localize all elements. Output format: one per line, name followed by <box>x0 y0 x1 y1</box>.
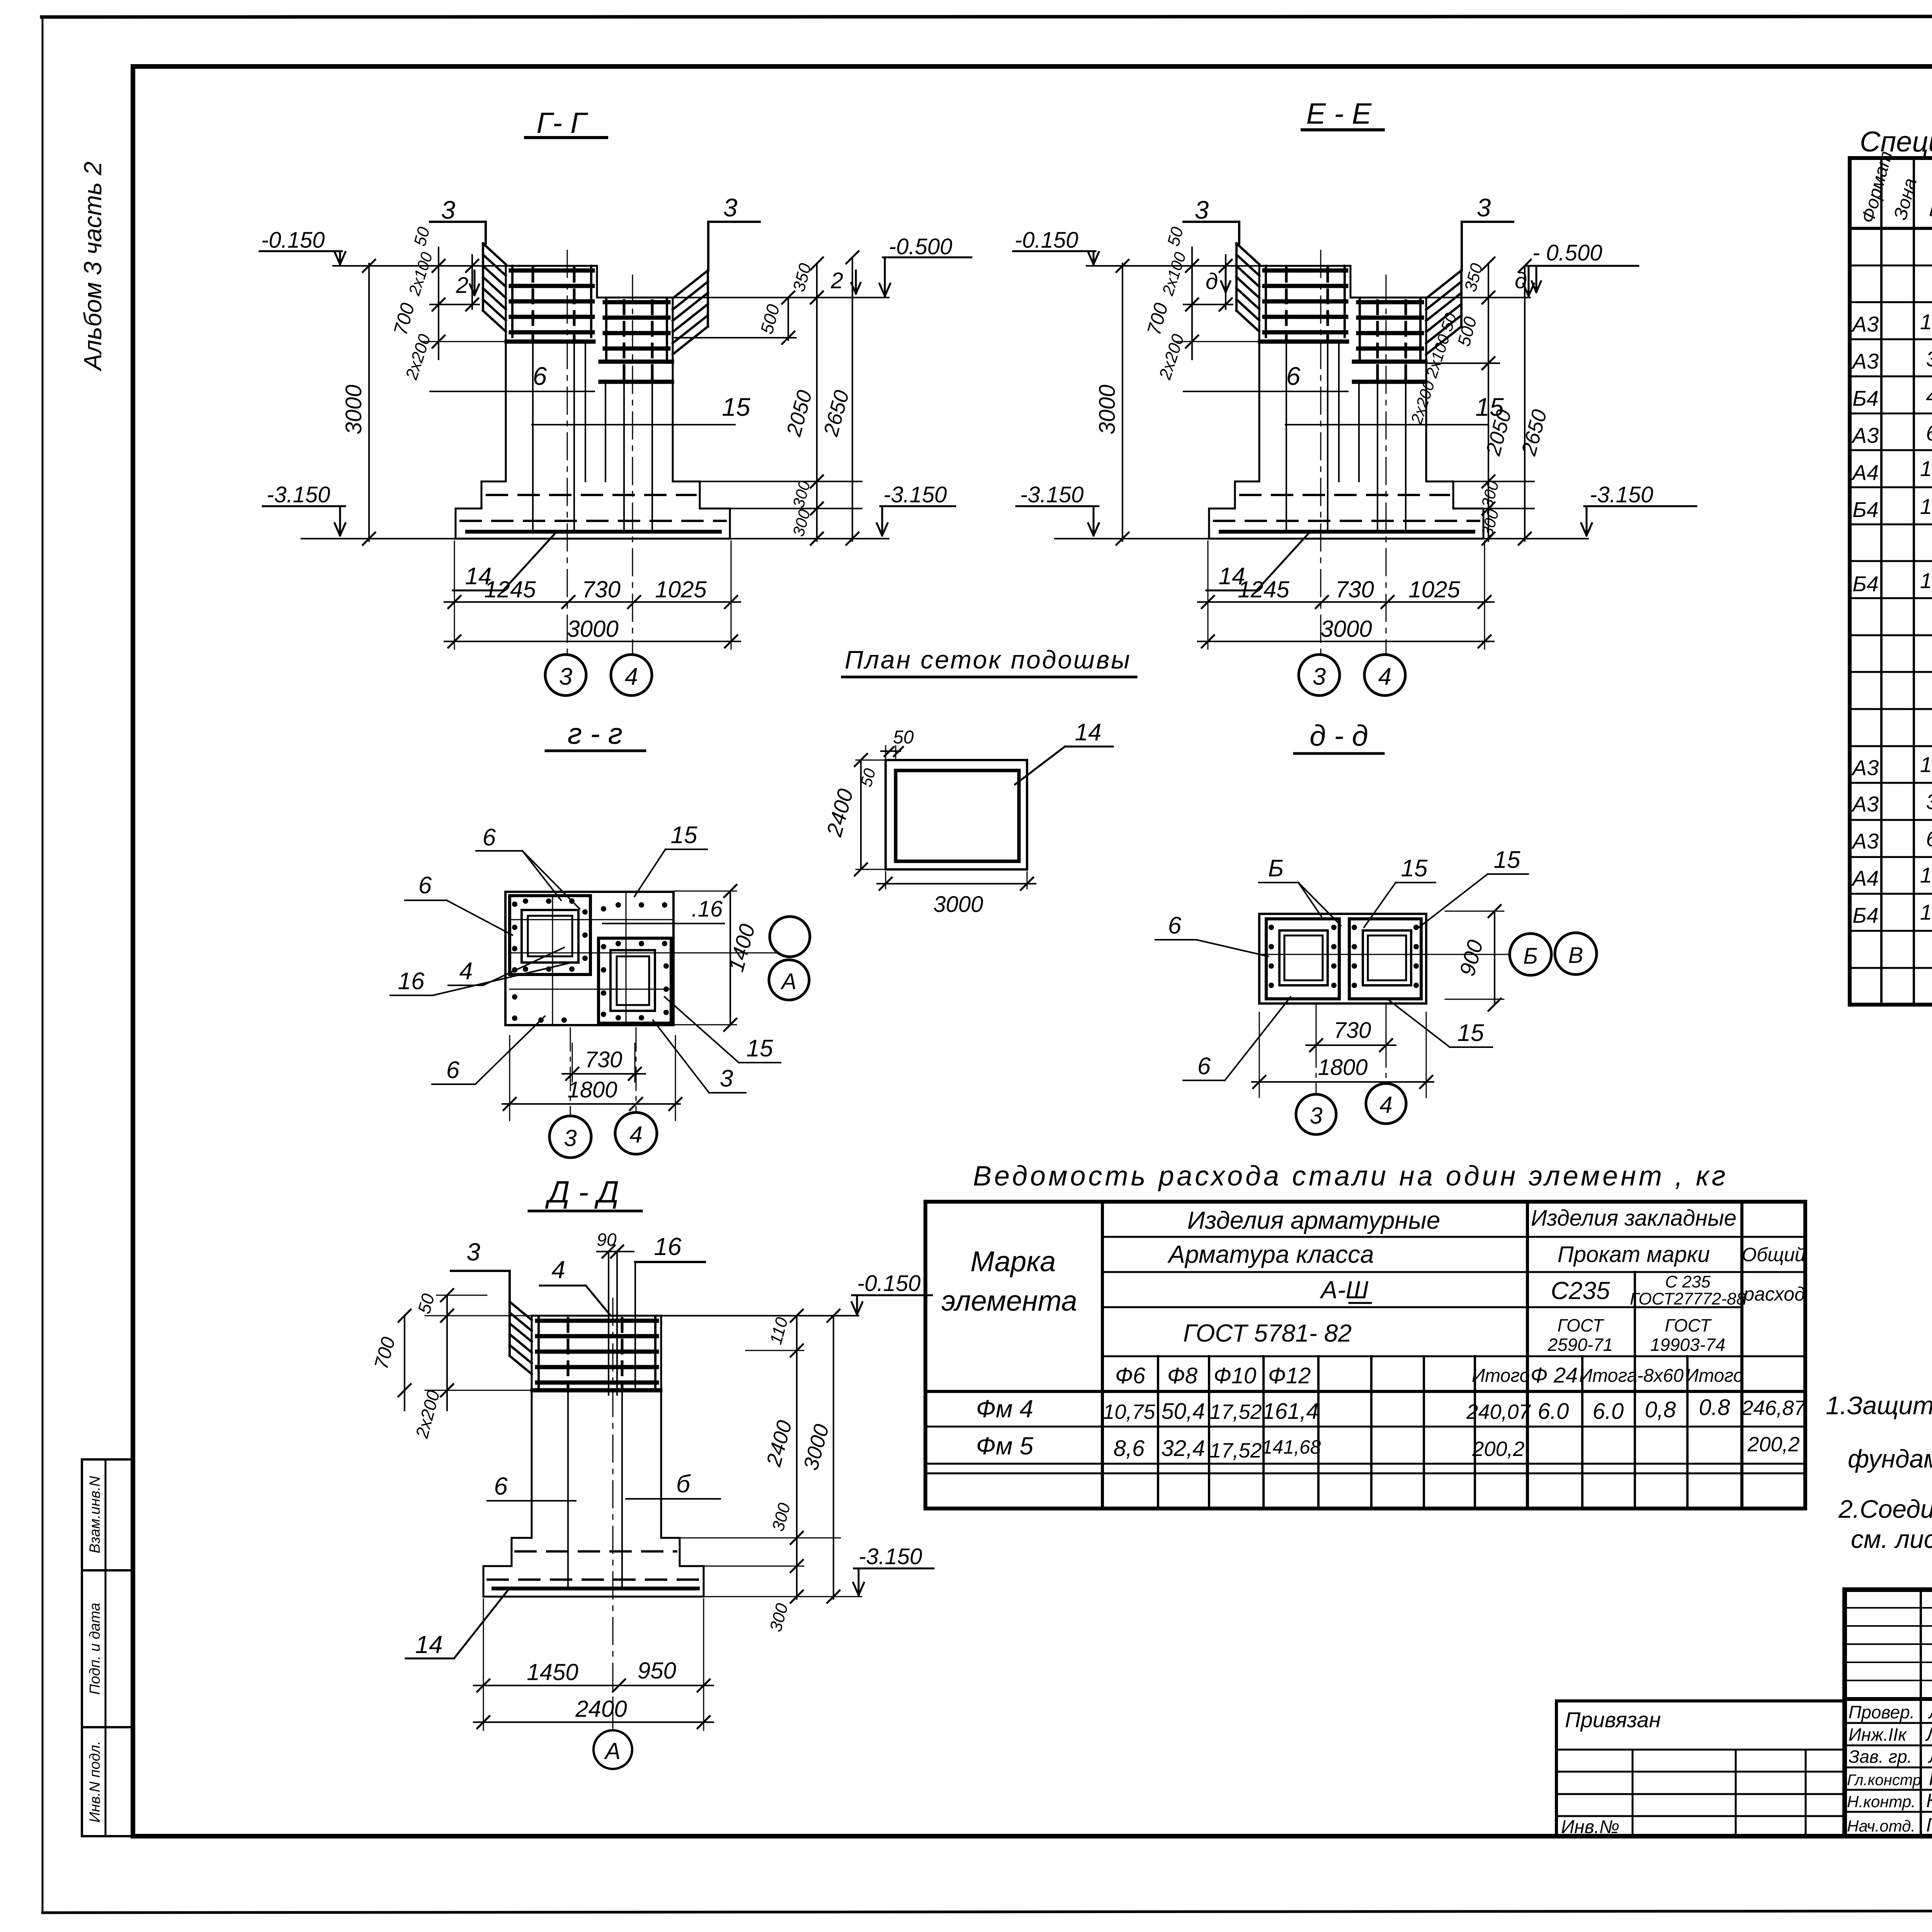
svg-text:Г- Г: Г- Г <box>536 107 588 139</box>
right dim chain of Г-Г <box>673 257 889 541</box>
svg-text:6: 6 <box>1926 421 1932 445</box>
left cell outer square <box>1266 919 1339 999</box>
main divider <box>1845 1697 1932 1701</box>
svg-text:Лазарева: Лазарева <box>1925 1723 1932 1745</box>
left dims cluster <box>405 1295 533 1410</box>
svg-text:А-Ш: А-Ш <box>1320 1276 1369 1304</box>
svg-text:2: 2 <box>456 273 468 298</box>
svg-text:15: 15 <box>1494 847 1520 873</box>
left cell outer square <box>510 896 590 975</box>
dim line 2400 <box>474 1721 713 1723</box>
svg-text:6: 6 <box>418 872 432 899</box>
svg-text:Капустин: Капустин <box>1926 1790 1932 1811</box>
svg-text:32,4: 32,4 <box>1162 1436 1205 1461</box>
svg-text:С235: С235 <box>1551 1277 1610 1304</box>
right cell outer square <box>599 938 671 1023</box>
svg-text:16: 16 <box>654 1233 682 1260</box>
left cell middle square <box>1279 930 1328 985</box>
svg-text:А: А <box>781 969 797 994</box>
svg-text:Провер.: Провер. <box>1849 1702 1915 1722</box>
bottom mesh 14 thick line <box>493 1587 698 1590</box>
svg-text:С 235: С 235 <box>1665 1272 1711 1291</box>
svg-text:А: А <box>604 1738 621 1764</box>
mesh C4 sheet inner rect <box>896 770 1019 861</box>
svg-text:13: 13 <box>1920 900 1932 924</box>
svg-text:А3: А3 <box>1851 423 1879 447</box>
svg-text:14: 14 <box>415 1631 442 1658</box>
dim 730 bottom <box>572 1043 573 1082</box>
svg-text:Общий: Общий <box>1742 1244 1805 1265</box>
left stamp box Взам.инв.N <box>82 1459 132 1570</box>
svg-text:15: 15 <box>1920 863 1932 887</box>
svg-text:3: 3 <box>564 1125 577 1151</box>
svg-text:3000: 3000 <box>933 892 983 917</box>
axis circle 3 <box>549 1116 591 1158</box>
right dims chain <box>680 1316 862 1599</box>
title block outer <box>1845 1590 1932 1836</box>
svg-text:6: 6 <box>446 1057 460 1083</box>
right cell middle square <box>1363 930 1411 985</box>
svg-text:-8x60: -8x60 <box>1637 1366 1684 1386</box>
svg-text:ГОСТ 5781- 82: ГОСТ 5781- 82 <box>1183 1319 1352 1347</box>
svg-text:Е - Е: Е - Е <box>1306 97 1372 130</box>
rebar dots д-д <box>1269 925 1419 988</box>
svg-text:6: 6 <box>494 1472 508 1500</box>
mesh plan outer rect <box>886 760 1027 869</box>
svg-text:16: 16 <box>398 968 425 995</box>
svg-text:А3: А3 <box>1851 312 1879 336</box>
svg-text:Фм 4: Фм 4 <box>976 1395 1033 1423</box>
svg-text:6: 6 <box>1168 912 1182 939</box>
svg-text:Инж.IIк: Инж.IIк <box>1849 1725 1907 1745</box>
svg-text:3: 3 <box>1926 347 1932 371</box>
svg-text:17,52: 17,52 <box>1209 1439 1262 1462</box>
svg-text:2400: 2400 <box>575 1696 627 1722</box>
svg-text:Б4: Б4 <box>1852 386 1879 410</box>
svg-text:-0.150: -0.150 <box>857 1271 920 1296</box>
svg-text:0.8: 0.8 <box>1699 1395 1730 1420</box>
svg-text:Спецификация монолитных фундам: Спецификация монолитных фундаментов Фм4,… <box>1860 126 1932 158</box>
svg-text:1.Защитный слой бетона для арм: 1.Защитный слой бетона для арматуры подо… <box>1826 1391 1932 1420</box>
svg-text:1800: 1800 <box>1318 1055 1367 1080</box>
vertical lines <box>1102 1202 1742 1509</box>
svg-text:Н.контр.: Н.контр. <box>1847 1793 1916 1811</box>
svg-text:- 0.500: - 0.500 <box>1532 240 1602 265</box>
svg-text:ГОСТ27772-88: ГОСТ27772-88 <box>1630 1289 1746 1308</box>
dim 1800 bottom <box>1252 1081 1434 1083</box>
vertical lines <box>1881 158 1932 1005</box>
svg-text:Ф8: Ф8 <box>1167 1363 1197 1388</box>
outer page border left <box>42 17 44 1913</box>
svg-text:141,68: 141,68 <box>1262 1436 1321 1458</box>
svg-text:Ф10: Ф10 <box>1214 1363 1257 1388</box>
svg-text:Фм 5: Фм 5 <box>976 1432 1034 1460</box>
svg-text:15: 15 <box>1401 855 1428 882</box>
concrete outline Д-Д <box>483 1316 704 1597</box>
axis circle 3 <box>1296 1094 1336 1134</box>
fan of bent bars <box>510 1302 532 1374</box>
svg-text:Гл.констр: Гл.констр <box>1847 1772 1921 1789</box>
svg-text:Итого: Итого <box>1472 1366 1530 1386</box>
svg-text:-3.150: -3.150 <box>1590 482 1653 507</box>
svg-text:200,2: 200,2 <box>1747 1433 1799 1456</box>
svg-text:15: 15 <box>1458 1020 1484 1046</box>
svg-text:Итого: Итого <box>1685 1366 1743 1386</box>
circles right: empty and А <box>770 917 810 957</box>
svg-text:Изделия арматурные: Изделия арматурные <box>1187 1206 1440 1234</box>
dim 900 right <box>1494 911 1495 1005</box>
svg-text:д - д: д - д <box>1310 719 1368 752</box>
svg-text:1450: 1450 <box>527 1659 578 1685</box>
table outer border <box>925 1202 1805 1509</box>
svg-text:План сеток подошвы: План сеток подошвы <box>845 645 1131 674</box>
svg-text:Альбом 3 часть 2: Альбом 3 часть 2 <box>79 162 107 372</box>
svg-text:13: 13 <box>1920 494 1932 519</box>
column rebar verticals <box>568 1389 622 1588</box>
svg-text:15: 15 <box>1920 456 1932 481</box>
left stamp box Подп. и дата <box>82 1570 132 1727</box>
svg-text:6.0: 6.0 <box>1538 1399 1569 1424</box>
dashed lines in base <box>515 1550 676 1553</box>
svg-text:19903-74: 19903-74 <box>1650 1335 1725 1355</box>
plan outer outline <box>1259 914 1426 1003</box>
svg-text:Б: Б <box>1523 944 1538 969</box>
plan outer outline <box>505 892 673 1025</box>
svg-text:Б4: Б4 <box>1852 497 1879 522</box>
svg-text:Нач.отд.: Нач.отд. <box>1847 1817 1915 1835</box>
svg-text:246,87: 246,87 <box>1741 1396 1806 1420</box>
svg-text:Марка: Марка <box>971 1245 1056 1277</box>
svg-text:3: 3 <box>1310 1103 1322 1129</box>
svg-text:Инв.№: Инв.№ <box>1561 1817 1619 1837</box>
left stamp box Инв.N подл. <box>82 1727 132 1836</box>
vertical dividers <box>1921 1590 1932 1836</box>
svg-text:Б: Б <box>1268 855 1284 882</box>
svg-text:6: 6 <box>483 824 496 851</box>
spec outer border <box>1850 158 1932 1005</box>
left cell inner square <box>528 916 572 956</box>
svg-text:17,52: 17,52 <box>1209 1400 1262 1423</box>
svg-text:Ф 24: Ф 24 <box>1531 1363 1578 1387</box>
svg-text:2590-71: 2590-71 <box>1548 1335 1613 1355</box>
svg-text:Ф6: Ф6 <box>1115 1363 1146 1388</box>
svg-text:А4: А4 <box>1851 866 1879 890</box>
rebar dots left cell <box>512 898 588 1023</box>
axis circle А <box>594 1730 632 1769</box>
svg-text:730: 730 <box>1334 1018 1371 1043</box>
svg-text:950: 950 <box>638 1658 676 1684</box>
svg-text:3: 3 <box>1926 789 1932 814</box>
svg-text:Подп. и дата: Подп. и дата <box>87 1603 103 1695</box>
svg-text:г - г: г - г <box>568 718 623 750</box>
svg-text:Инв.N подл.: Инв.N подл. <box>87 1741 103 1823</box>
svg-text:4: 4 <box>459 958 473 985</box>
svg-text:3: 3 <box>720 1065 733 1092</box>
svg-text:Изделия закладные: Изделия закладные <box>1531 1206 1736 1231</box>
svg-text:6: 6 <box>1926 827 1932 851</box>
привязан table <box>1556 1699 1845 1702</box>
svg-text:-3.150: -3.150 <box>883 482 947 507</box>
band hooks <box>537 1318 540 1387</box>
outer page border bottom <box>43 1910 1932 1913</box>
svg-text:15: 15 <box>747 1035 773 1062</box>
svg-text:Д - Д: Д - Д <box>545 1175 619 1209</box>
svg-text:16: 16 <box>1920 568 1932 593</box>
svg-text:10,75: 10,75 <box>1103 1400 1155 1423</box>
svg-text:ГОСТ: ГОСТ <box>1665 1315 1712 1335</box>
right cell inner square <box>617 956 649 1005</box>
svg-text:А3: А3 <box>1851 792 1879 816</box>
svg-text:0,8: 0,8 <box>1645 1397 1676 1422</box>
svg-text:Арматура класса: Арматура класса <box>1167 1240 1374 1268</box>
svg-text:А3: А3 <box>1851 755 1879 780</box>
svg-text:Б4: Б4 <box>1852 571 1879 596</box>
dim 2400 left <box>860 760 862 869</box>
svg-text:161,4: 161,4 <box>1262 1399 1318 1424</box>
left cell inner square <box>1284 935 1323 980</box>
axis circle 4 <box>615 1112 657 1154</box>
svg-text:14: 14 <box>1075 719 1102 746</box>
svg-text:Привязан: Привязан <box>1565 1708 1661 1732</box>
svg-text:2: 2 <box>830 268 843 293</box>
right cell middle square <box>611 950 655 1011</box>
svg-text:200,2: 200,2 <box>1472 1437 1524 1461</box>
foundation drawing Е-Е <box>1013 193 1513 696</box>
mesh band horizontals <box>532 1321 660 1390</box>
svg-text:Ведомость расхода стали на оди: Ведомость расхода стали на один элемент … <box>973 1161 1728 1192</box>
svg-text:ГОСТ: ГОСТ <box>1557 1315 1604 1335</box>
svg-text:д: д <box>1206 269 1218 294</box>
svg-text:8,6: 8,6 <box>1114 1436 1145 1461</box>
svg-text:2.Соединение сеток в пространс: 2.Соединение сеток в пространственный ка… <box>1838 1495 1932 1523</box>
svg-text:А3: А3 <box>1851 829 1879 853</box>
svg-text:4: 4 <box>1379 1092 1392 1118</box>
dim 1800 bottom <box>502 1103 680 1105</box>
svg-text:4: 4 <box>629 1122 642 1148</box>
svg-text:В: В <box>1568 943 1583 968</box>
upper small grid rows <box>1845 1608 1932 1680</box>
circles Б В right <box>1510 934 1551 975</box>
dim 3000 bottom <box>885 872 886 889</box>
svg-text:15: 15 <box>671 822 697 849</box>
svg-text:6.0: 6.0 <box>1593 1399 1624 1424</box>
foundation drawing Г-Г <box>260 193 760 696</box>
svg-text:.16: .16 <box>692 896 723 922</box>
svg-text:расход: расход <box>1743 1283 1805 1305</box>
svg-text:фундамента-35мм, для остальной: фундамента-35мм, для остальной-25 мм. <box>1848 1444 1932 1473</box>
axis circle 4 <box>1366 1083 1406 1124</box>
svg-text:4: 4 <box>551 1256 565 1284</box>
svg-text:6: 6 <box>1197 1053 1211 1080</box>
svg-text:-0.500: -0.500 <box>889 234 952 259</box>
dim 1400 right <box>730 891 731 1025</box>
svg-text:240,07: 240,07 <box>1466 1400 1531 1423</box>
svg-text:50,4: 50,4 <box>1162 1399 1205 1424</box>
right cell outer square <box>1349 919 1421 999</box>
svg-text:Прокат марки: Прокат марки <box>1558 1242 1710 1267</box>
svg-text:4: 4 <box>1926 384 1932 408</box>
svg-text:Б4: Б4 <box>1852 903 1879 927</box>
horizontal lines <box>925 1237 1805 1473</box>
row lines <box>1850 265 1932 968</box>
right cell inner square <box>1368 935 1406 980</box>
svg-text:-3.150: -3.150 <box>859 1544 922 1569</box>
svg-text:730: 730 <box>585 1047 622 1072</box>
svg-text:Письман: Письман <box>1926 1814 1932 1836</box>
svg-text:Ф12: Ф12 <box>1268 1363 1311 1388</box>
svg-text:А3: А3 <box>1851 349 1879 373</box>
svg-text:Взам.инв.N: Взам.инв.N <box>87 1476 103 1553</box>
svg-text:1800: 1800 <box>567 1077 617 1102</box>
svg-text:Зав. гр.: Зав. гр. <box>1849 1747 1912 1767</box>
bottom extension lines <box>483 1599 484 1730</box>
svg-text:14: 14 <box>1920 752 1932 777</box>
svg-text:б: б <box>676 1470 691 1498</box>
mid horizontal line <box>1259 954 1510 955</box>
svg-text:14: 14 <box>1920 310 1932 334</box>
svg-text:А4: А4 <box>1851 460 1879 485</box>
lower left rows <box>1845 1723 1932 1812</box>
right dim chain of Е-Е <box>1426 264 1588 541</box>
column axis dash-dot <box>612 1298 614 1728</box>
header bottom <box>1850 227 1932 230</box>
svg-text:элемента: элемента <box>941 1285 1077 1317</box>
svg-text:50: 50 <box>893 727 914 748</box>
grid lines through plan <box>510 892 777 1025</box>
band vertical dashed rebar <box>567 1318 570 1389</box>
left cell middle square <box>522 910 578 963</box>
svg-text:Итога: Итога <box>1579 1366 1637 1386</box>
outer page border top <box>42 16 1932 17</box>
dim 730 bottom <box>1316 1020 1317 1056</box>
svg-text:см. лист КЖ14.: см. лист КЖ14. <box>1851 1525 1932 1553</box>
dim line 1450 950 <box>474 1685 713 1686</box>
svg-text:3: 3 <box>466 1238 480 1266</box>
svg-text:Пронин: Пронин <box>1929 1768 1932 1789</box>
rebar dots right cell <box>601 902 669 1020</box>
